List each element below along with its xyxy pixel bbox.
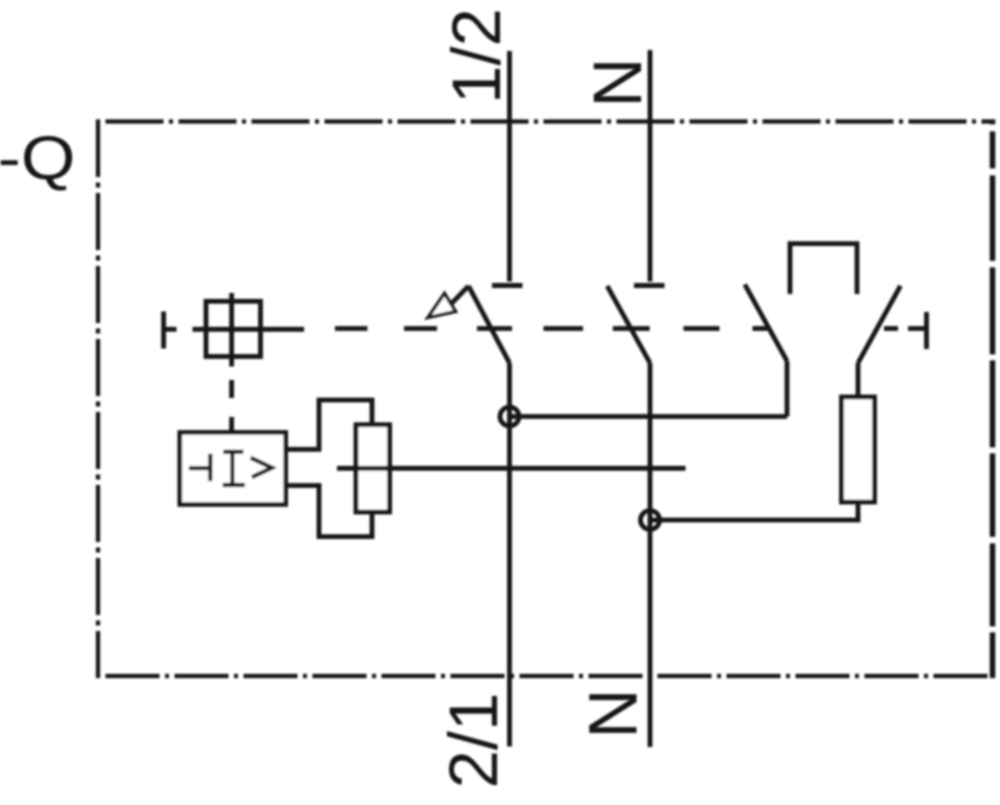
svg-text:N: N — [579, 58, 656, 108]
svg-text:-Q: -Q — [0, 123, 75, 192]
svg-text:2/1: 2/1 — [435, 693, 512, 789]
svg-text:N: N — [575, 689, 652, 739]
svg-text:1/2: 1/2 — [438, 8, 515, 104]
